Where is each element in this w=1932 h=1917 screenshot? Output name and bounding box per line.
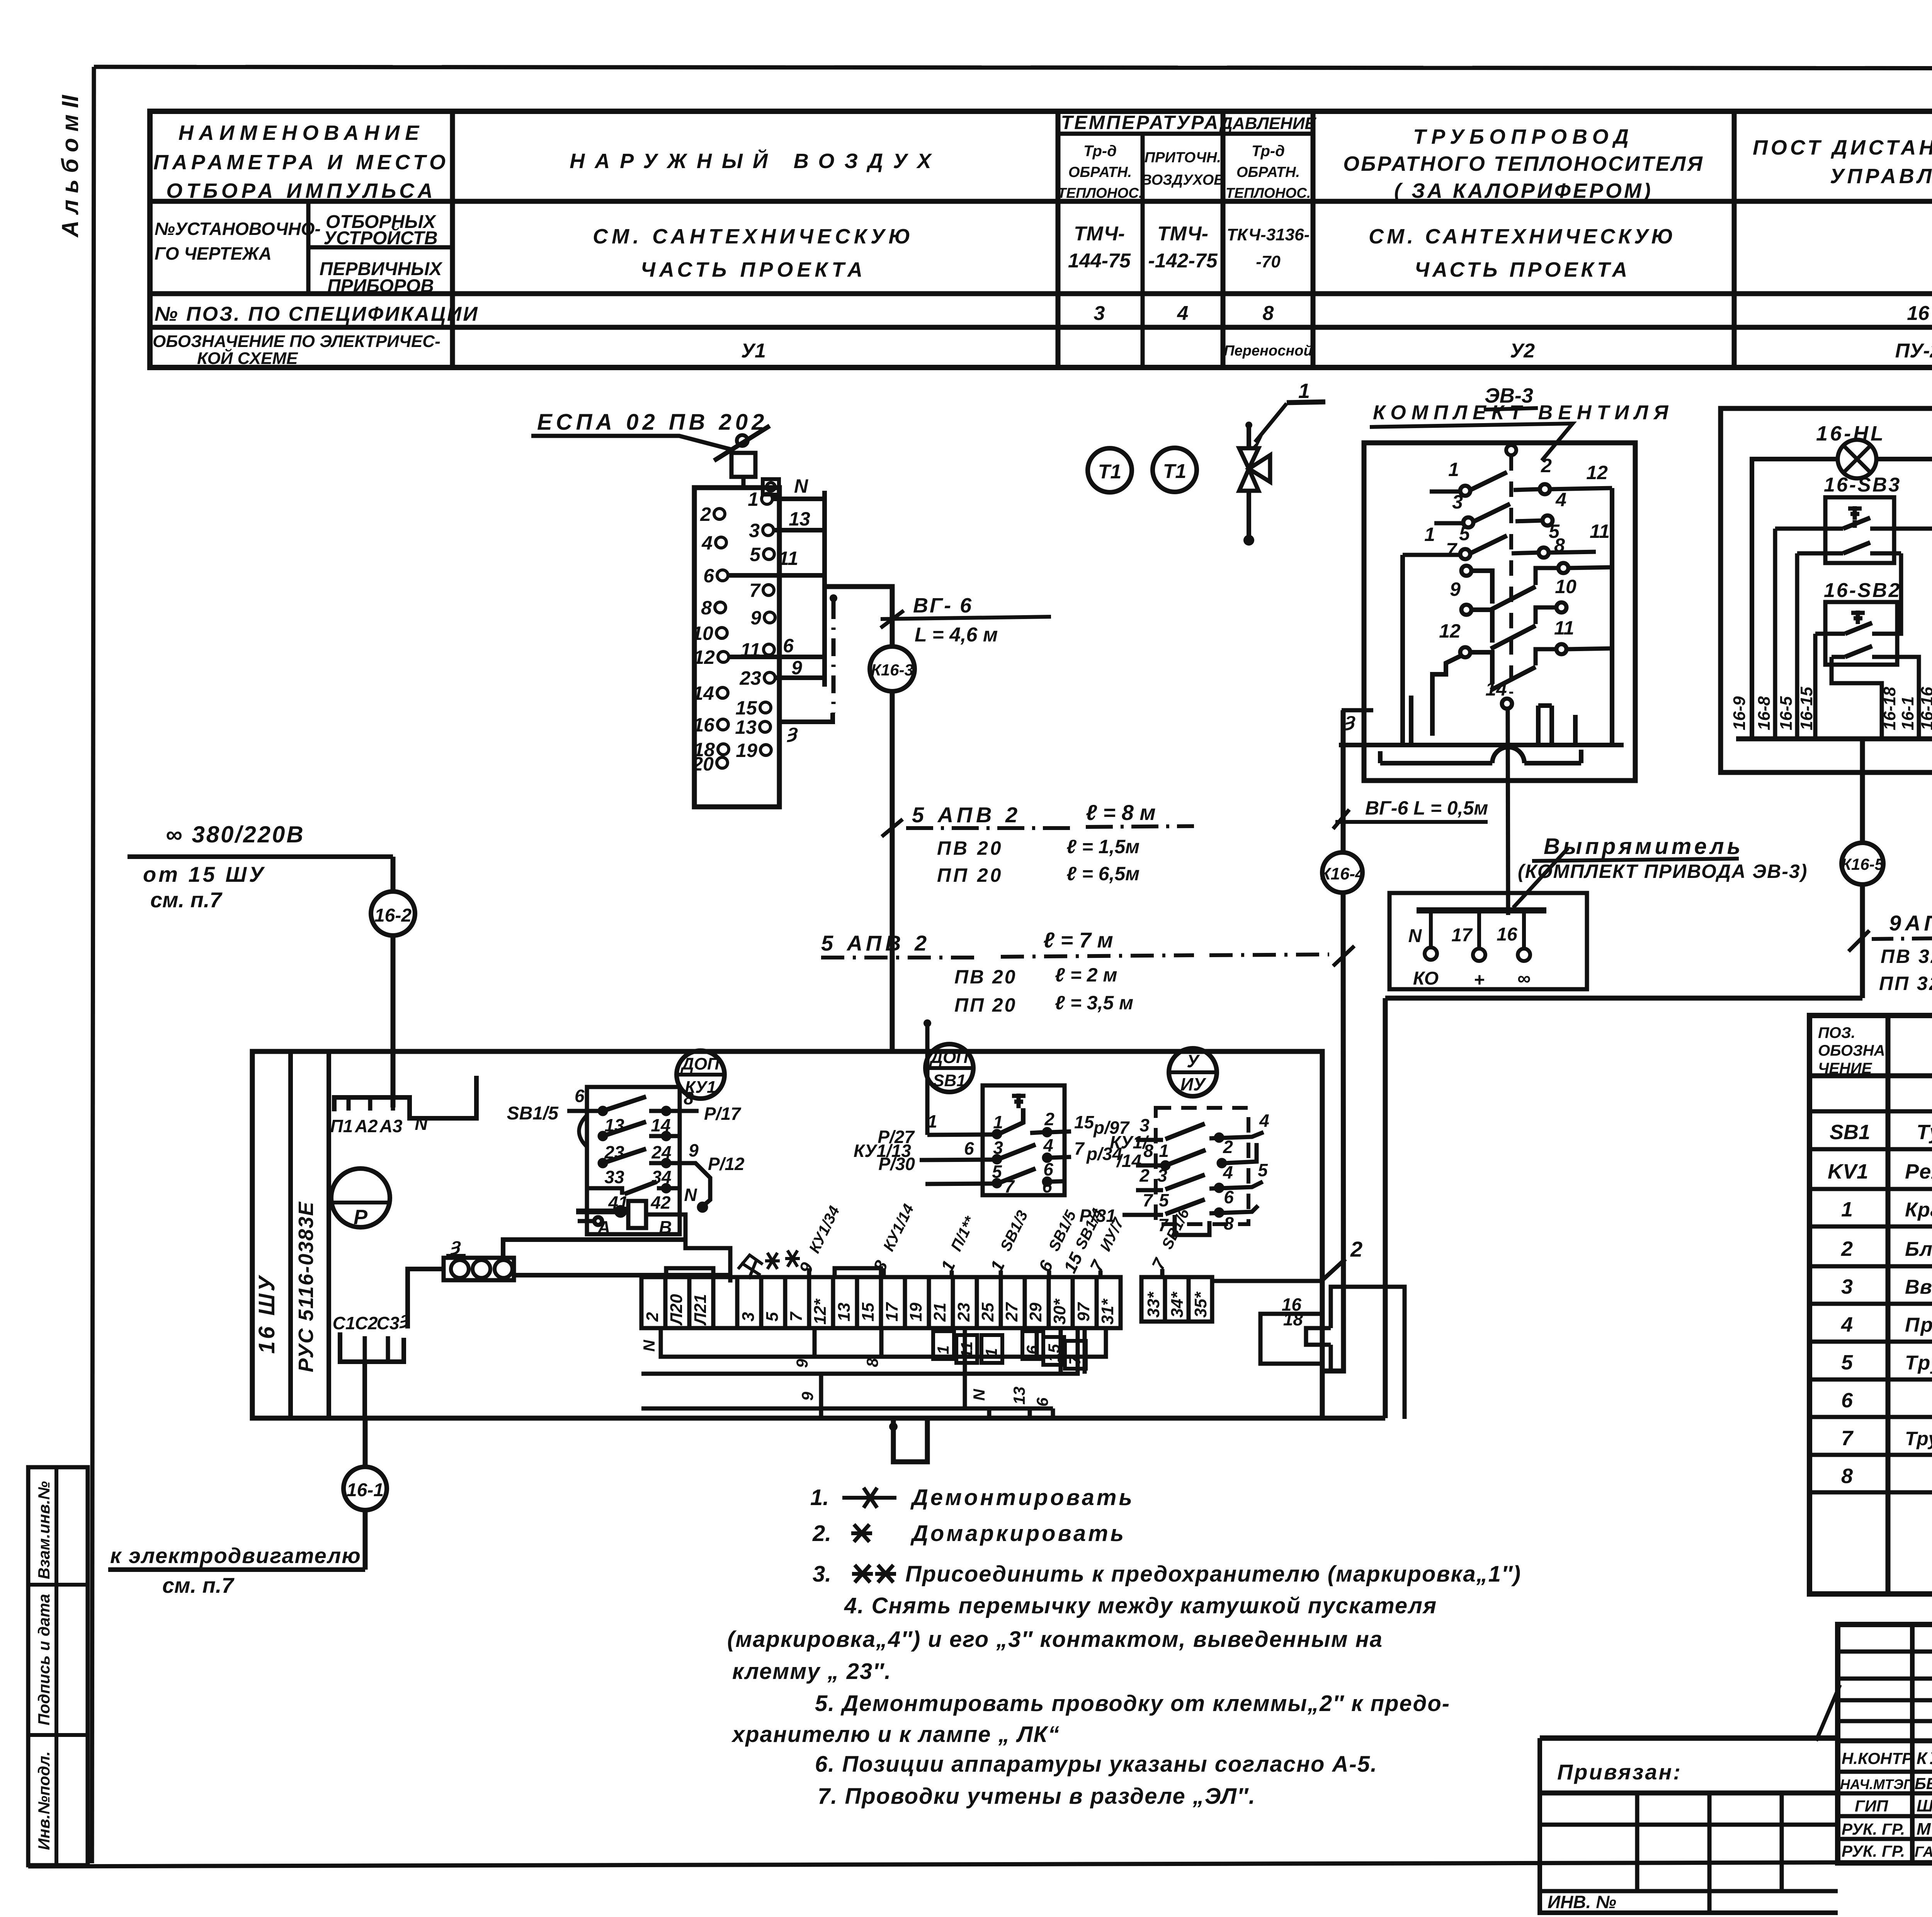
svg-text:2: 2 — [1841, 1237, 1853, 1260]
svg-text:П1: П1 — [330, 1116, 353, 1136]
svg-text:5. Демонтировать проводку от: 5. Демонтировать проводку от клеммы„2″ к… — [815, 1691, 1450, 1716]
svg-text:5 АПВ 2: 5 АПВ 2 — [821, 931, 930, 955]
svg-text:ПВ 20: ПВ 20 — [954, 966, 1017, 988]
svg-text:6. Позиции аппаратуры указан: 6. Позиции аппаратуры указаны согласно А… — [815, 1752, 1378, 1777]
svg-text:5: 5 — [1258, 1160, 1268, 1180]
privyazan box — [1540, 1738, 1838, 1913]
svg-text:2: 2 — [1541, 455, 1552, 476]
svg-text:НАЧ.МТЭП: НАЧ.МТЭП — [1840, 1776, 1914, 1792]
row 1-2 — [1460, 486, 1470, 496]
left terminals — [714, 509, 729, 768]
notes — [727, 1485, 1521, 1809]
right terminals — [760, 493, 775, 755]
KU1 relay block — [507, 1051, 745, 1283]
svg-text:N: N — [794, 475, 808, 497]
svg-text:Труба ТУ6-19-051-249-79 ПВХ-В-: Труба ТУ6-19-051-249-79 ПВХ-В-Р ЭП 20У — [1905, 1428, 1932, 1449]
svg-text:SВ1: SВ1 — [933, 1071, 966, 1090]
svg-text:13: 13 — [835, 1303, 854, 1322]
svg-text:УПРАВЛЕНИЯ: УПРАВЛЕНИЯ — [1830, 165, 1932, 188]
svg-text:С3: С3 — [377, 1313, 400, 1333]
5 APV 2 labels — [882, 819, 903, 837]
lever / switch arm — [714, 426, 770, 461]
svg-text:КОЙ СХЕМЕ: КОЙ СХЕМЕ — [197, 348, 298, 368]
svg-text:8: 8 — [1143, 1141, 1153, 1161]
svg-text:6: 6 — [1034, 1257, 1057, 1275]
svg-text:+: + — [1474, 970, 1485, 990]
svg-text:ГИП: ГИП — [1855, 1797, 1888, 1815]
svg-text:SВ1/3: SВ1/3 — [997, 1208, 1031, 1254]
dashed actuator line — [1506, 445, 1516, 455]
fuse square — [731, 453, 755, 477]
svg-text:16-ЅВ2: 16-ЅВ2 — [1824, 579, 1901, 602]
svg-text:ПРИТОЧН.: ПРИТОЧН. — [1145, 150, 1221, 166]
svg-text:16-16: 16-16 — [1918, 687, 1932, 730]
left margin strip — [28, 95, 88, 1865]
svg-text:К16-5: К16-5 — [1841, 855, 1884, 873]
svg-text:ТРУБОПРОВОД: ТРУБОПРОВОД — [1413, 125, 1634, 148]
EV-3 valve drive box — [821, 384, 1673, 1371]
svg-text:НАИМЕНОВАНИЕ: НАИМЕНОВАНИЕ — [179, 121, 425, 145]
svg-text:8: 8 — [1263, 302, 1274, 325]
svg-text:Реле РПЛ-1310 4: Реле РПЛ-1310 4 — [1905, 1160, 1932, 1183]
svg-text:SB1: SB1 — [1830, 1121, 1870, 1144]
svg-text:ℓ = 8 м: ℓ = 8 м — [1086, 800, 1156, 825]
dash-dot demount wire — [832, 601, 836, 713]
C1 C2 C3 comb — [333, 1308, 410, 1418]
svg-text:9: 9 — [795, 1259, 817, 1277]
svg-text:П/1**: П/1** — [948, 1213, 979, 1254]
svg-text:1: 1 — [934, 1345, 952, 1354]
svg-text:16: 16 — [1907, 302, 1930, 325]
svg-text:11: 11 — [1590, 520, 1610, 542]
svg-text:16 ШУ: 16 ШУ — [254, 1274, 279, 1354]
svg-text:КУНИНА: КУНИНА — [1917, 1749, 1932, 1768]
T1 instrument circles — [1088, 448, 1197, 492]
svg-text:7: 7 — [1074, 1138, 1085, 1158]
svg-text:Инв.№подл.: Инв.№подл. — [35, 1751, 53, 1850]
svg-text:ШЕЛЕВИЛЯ: ШЕЛЕВИЛЯ — [1917, 1796, 1932, 1815]
block body — [694, 488, 779, 807]
svg-text:ОТБОРА ИМПУЛЬСА: ОТБОРА ИМПУЛЬСА — [166, 179, 437, 202]
SB1 tumbler block — [854, 1019, 1149, 1196]
svg-text:6: 6 — [1023, 1345, 1041, 1354]
svg-text:Т1: Т1 — [1098, 461, 1122, 483]
svg-text:5: 5 — [750, 544, 761, 565]
svg-text:ОБРАТНОГО ТЕПЛОНОСИТЕЛЯ: ОБРАТНОГО ТЕПЛОНОСИТЕЛЯ — [1343, 152, 1704, 175]
VG-6 L=0,5 marking — [1333, 810, 1349, 829]
svg-text:ℓ = 6,5м: ℓ = 6,5м — [1066, 863, 1139, 885]
svg-text:3: 3 — [1094, 302, 1105, 325]
bus to K16-3 — [825, 587, 892, 646]
svg-text:8: 8 — [684, 1088, 694, 1108]
left feeder texts — [108, 822, 393, 1597]
svg-text:12: 12 — [693, 646, 715, 668]
16/18 connector — [1260, 1287, 1405, 1419]
svg-text:ℓ = 7 м: ℓ = 7 м — [1043, 928, 1113, 952]
svg-text:Тр-д: Тр-д — [1252, 143, 1285, 160]
svg-text:16-1: 16-1 — [1898, 696, 1917, 730]
svg-text:УСТРОЙСТВ: УСТРОЙСТВ — [323, 227, 437, 248]
svg-text:БЕГАНСКАЯ: БЕГАНСКАЯ — [1915, 1774, 1932, 1793]
svg-text:4. Снять перемычку между ка: 4. Снять перемычку между катушкой пускат… — [844, 1593, 1437, 1618]
svg-text:12: 12 — [1439, 620, 1461, 642]
svg-text:1: 1 — [1448, 459, 1459, 480]
svg-text:СМ. САНТЕХНИЧЕСКУЮ: СМ. САНТЕХНИЧЕСКУЮ — [1369, 225, 1676, 248]
svg-text:18: 18 — [1283, 1309, 1303, 1329]
svg-text:6: 6 — [1841, 1389, 1853, 1412]
svg-text:6: 6 — [964, 1138, 974, 1158]
svg-text:Тр-д: Тр-д — [1083, 143, 1117, 160]
svg-text:144-75: 144-75 — [1068, 250, 1131, 272]
svg-text:А л ь б о м II: А л ь б о м II — [57, 95, 83, 238]
svg-text:17: 17 — [883, 1302, 901, 1322]
svg-text:14: 14 — [651, 1115, 670, 1135]
svg-text:ТМЧ-: ТМЧ- — [1074, 223, 1125, 245]
svg-text:6: 6 — [575, 1086, 585, 1106]
svg-text:33: 33 — [604, 1167, 624, 1187]
svg-text:16: 16 — [1497, 924, 1517, 945]
16-2 riser — [371, 857, 415, 1107]
contact numbers — [1424, 455, 1610, 700]
svg-text:ПОЗ.: ПОЗ. — [1818, 1024, 1855, 1041]
svg-text:Переносной: Переносной — [1224, 343, 1312, 359]
svg-text:7: 7 — [1841, 1427, 1854, 1450]
svg-text:5: 5 — [763, 1312, 782, 1322]
svg-text:12*: 12* — [811, 1298, 830, 1325]
row 9-10 — [1461, 605, 1471, 615]
svg-text:15: 15 — [735, 697, 757, 719]
svg-text:31*: 31* — [1098, 1298, 1117, 1325]
svg-text:7: 7 — [749, 580, 761, 601]
svg-text:А: А — [597, 1217, 610, 1237]
svg-text:2: 2 — [1350, 1237, 1362, 1261]
svg-text:ПАРАМЕТРА И МЕСТО: ПАРАМЕТРА И МЕСТО — [153, 151, 449, 174]
svg-text:ȝ: ȝ — [450, 1235, 461, 1255]
svg-text:Р/17: Р/17 — [704, 1104, 742, 1124]
svg-text:23: 23 — [604, 1142, 624, 1162]
svg-text:3: 3 — [1841, 1275, 1853, 1298]
svg-text:ПУ-2: ПУ-2 — [1895, 340, 1932, 362]
33 34 35 cells — [1141, 1277, 1212, 1322]
svg-text:2: 2 — [1139, 1165, 1150, 1186]
svg-text:9: 9 — [793, 1359, 811, 1368]
svg-text:ДОП: ДОП — [680, 1055, 720, 1073]
svg-text:ГАНОПОЛЬСКАЯ: ГАНОПОЛЬСКАЯ — [1915, 1844, 1932, 1860]
svg-text:Т1: Т1 — [1163, 460, 1187, 483]
svg-text:12: 12 — [1586, 462, 1608, 483]
svg-text:4: 4 — [1043, 1135, 1053, 1155]
svg-text:5: 5 — [1459, 523, 1470, 544]
svg-text:16-9: 16-9 — [1730, 696, 1749, 730]
svg-text:13: 13 — [735, 716, 757, 738]
svg-text:У2: У2 — [1510, 340, 1535, 362]
svg-text:ПОСТ ДИСТАНЦИОННОГО: ПОСТ ДИСТАНЦИОННОГО — [1753, 136, 1932, 159]
svg-text:2: 2 — [1044, 1109, 1054, 1129]
svg-text:2: 2 — [643, 1312, 662, 1322]
svg-text:5: 5 — [992, 1162, 1002, 1182]
svg-text:ТЕПЛОНОС.: ТЕПЛОНОС. — [1226, 185, 1311, 201]
svg-text:С1: С1 — [333, 1313, 355, 1333]
svg-text:Тумблер ТВ1-2: Тумблер ТВ1-2 — [1917, 1121, 1932, 1144]
svg-text:11: 11 — [778, 548, 798, 569]
svg-text:-142-75: -142-75 — [1148, 250, 1218, 272]
svg-text:34*: 34* — [1168, 1291, 1187, 1318]
svg-text:25: 25 — [978, 1303, 997, 1322]
svg-text:НАРУЖНЫЙ ВОЗДУХ: НАРУЖНЫЙ ВОЗДУХ — [570, 149, 941, 173]
svg-text:KV1: KV1 — [1828, 1160, 1868, 1183]
svg-text:Взам.инв.№: Взам.инв.№ — [35, 1481, 53, 1579]
P1 A2 A3 N comb — [330, 1076, 476, 1136]
14 bottom contact — [1502, 699, 1512, 709]
svg-text:4: 4 — [701, 532, 713, 554]
svg-text:SВ1/5: SВ1/5 — [1046, 1208, 1080, 1254]
svg-text:42: 42 — [650, 1192, 671, 1213]
svg-text:19: 19 — [736, 740, 757, 761]
svg-text:А3: А3 — [379, 1116, 403, 1136]
svg-text:4: 4 — [1555, 489, 1566, 510]
svg-text:К16-3: К16-3 — [871, 661, 913, 679]
svg-text:ЧЕНИЕ: ЧЕНИЕ — [1818, 1060, 1872, 1077]
svg-text:35*: 35* — [1191, 1291, 1210, 1318]
svg-text:13: 13 — [789, 508, 810, 530]
svg-text:ПП 20: ПП 20 — [954, 994, 1017, 1016]
svg-text:19: 19 — [906, 1303, 925, 1322]
svg-text:15: 15 — [1074, 1112, 1095, 1132]
svg-text:ТЕПЛОНОС.: ТЕПЛОНОС. — [1058, 185, 1143, 201]
svg-text:ℓ = 2 м: ℓ = 2 м — [1055, 964, 1117, 986]
svg-text:ИНВ. №: ИНВ. № — [1548, 1892, 1616, 1912]
svg-text:ȝ: ȝ — [787, 721, 798, 742]
svg-text:РУК. ГР.: РУК. ГР. — [1842, 1820, 1905, 1838]
svg-text:1: 1 — [1298, 379, 1310, 403]
svg-text:3: 3 — [749, 520, 760, 541]
svg-text:4: 4 — [1259, 1111, 1269, 1131]
right components table — [1810, 1015, 1932, 1594]
svg-text:Привязан:: Привязан: — [1557, 1760, 1682, 1784]
svg-text:5: 5 — [1159, 1190, 1169, 1210]
svg-text:от 15 ШУ: от 15 ШУ — [143, 862, 266, 886]
svg-text:К16-4: К16-4 — [1320, 864, 1364, 883]
svg-text:41: 41 — [608, 1192, 628, 1213]
svg-text:15: 15 — [859, 1303, 878, 1322]
svg-text:1: 1 — [927, 1111, 937, 1131]
svg-text:Л21: Л21 — [691, 1294, 710, 1326]
row 12-11 — [1460, 647, 1470, 657]
svg-text:7: 7 — [787, 1311, 806, 1322]
svg-text:5 АПВ 2: 5 АПВ 2 — [912, 803, 1021, 827]
svg-text:34: 34 — [651, 1167, 671, 1187]
svg-text:В: В — [659, 1217, 672, 1237]
rectifier — [1389, 834, 1808, 990]
svg-text:24: 24 — [651, 1142, 671, 1162]
svg-text:2: 2 — [1223, 1137, 1233, 1157]
svg-text:ДОП: ДОП — [929, 1048, 969, 1067]
svg-text:1.: 1. — [810, 1485, 829, 1510]
svg-text:23: 23 — [954, 1303, 973, 1322]
svg-text:15: 15 — [1060, 1249, 1087, 1276]
svg-text:С2: С2 — [355, 1313, 378, 1333]
svg-text:Л20: Л20 — [667, 1294, 686, 1326]
wires from lamp — [1752, 459, 1932, 739]
K16-3 circle — [870, 646, 915, 691]
16-1 riser — [344, 1418, 387, 1570]
svg-text:КО: КО — [1413, 968, 1439, 989]
svg-text:7: 7 — [1446, 539, 1458, 561]
svg-text:Кран трехходовой 14м1-16: Кран трехходовой 14м1-16 — [1905, 1199, 1932, 1221]
svg-text:33*: 33* — [1144, 1291, 1163, 1318]
svg-text:КУ1/14: КУ1/14 — [880, 1201, 917, 1254]
svg-text:СМ. САНТЕХНИЧЕСКУЮ: СМ. САНТЕХНИЧЕСКУЮ — [593, 225, 914, 248]
svg-text:ВГ- 6: ВГ- 6 — [913, 594, 973, 617]
svg-text:У: У — [1187, 1051, 1200, 1071]
IU plug block (dashed) — [1079, 1048, 1269, 1235]
svg-text:8: 8 — [863, 1358, 881, 1367]
K16-5 riser — [1841, 843, 1932, 998]
svg-text:16-15: 16-15 — [1797, 687, 1816, 730]
svg-text:11: 11 — [1554, 617, 1574, 639]
demount marks over cells 3-7 — [738, 1250, 800, 1279]
svg-text:5: 5 — [1841, 1351, 1853, 1374]
svg-text:13: 13 — [1010, 1386, 1028, 1405]
svg-text:Провод АПВ 2 —380/660: Провод АПВ 2 —380/660 — [1905, 1314, 1932, 1336]
svg-text:А2: А2 — [355, 1116, 378, 1136]
svg-text:9: 9 — [1450, 578, 1461, 600]
svg-text:7: 7 — [1143, 1190, 1153, 1210]
svg-text:9: 9 — [750, 607, 761, 629]
svg-text:2.: 2. — [812, 1521, 831, 1546]
svg-text:РУС 5116-0383Е: РУС 5116-0383Е — [294, 1201, 318, 1373]
svg-text:30*: 30* — [1050, 1298, 1069, 1325]
svg-text:Р/30: Р/30 — [878, 1154, 915, 1174]
svg-text:(маркировка„4″) и его „3″ ко: (маркировка„4″) и его „3″ контактом, выв… — [727, 1627, 1383, 1652]
svg-text:клемму „ 23″.: клемму „ 23″. — [732, 1659, 891, 1684]
svg-text:7: 7 — [1004, 1176, 1015, 1196]
16-HL local control post box — [1721, 408, 1932, 843]
note symbols — [842, 1488, 896, 1582]
svg-text:N: N — [1408, 926, 1422, 946]
svg-text:У1: У1 — [741, 340, 766, 362]
svg-text:см. п.7: см. п.7 — [150, 888, 223, 912]
svg-text:3.: 3. — [813, 1561, 831, 1587]
terminal strip — [640, 1201, 1405, 1419]
svg-text:ЧАСТЬ ПРОЕКТА: ЧАСТЬ ПРОЕКТА — [1415, 258, 1630, 281]
rotated wire tags above strip — [795, 1201, 1128, 1277]
svg-text:27: 27 — [1002, 1302, 1021, 1322]
svg-text:6: 6 — [1033, 1397, 1051, 1407]
bottom bus and tags — [1736, 737, 1932, 742]
svg-text:9: 9 — [689, 1140, 699, 1160]
svg-text:ОБОЗНА-: ОБОЗНА- — [1818, 1042, 1890, 1059]
short leads from blocks to strip — [809, 1268, 1100, 1277]
svg-text:4: 4 — [1841, 1313, 1853, 1336]
tag boxes below strip — [933, 1331, 1086, 1369]
svg-text:13: 13 — [604, 1115, 624, 1135]
svg-text:ПП 20: ПП 20 — [937, 864, 1003, 886]
svg-text:1: 1 — [1159, 1141, 1169, 1161]
svg-text:Ввод гибкий ВГ-6 ТКЧ-395-71: Ввод гибкий ВГ-6 ТКЧ-395-71 — [1905, 1276, 1932, 1298]
svg-text:14: 14 — [1485, 678, 1507, 700]
svg-text:3: 3 — [1452, 491, 1463, 513]
svg-text:МОРОЗ: МОРОЗ — [1917, 1820, 1932, 1839]
svg-text:№УСТАНОВОЧНО-: №УСТАНОВОЧНО- — [155, 219, 321, 239]
svg-text:3: 3 — [993, 1138, 1003, 1158]
contact rows — [1403, 472, 1612, 915]
svg-text:9: 9 — [798, 1391, 816, 1401]
row 3-4 — [1463, 517, 1473, 527]
svg-text:-70: -70 — [1256, 252, 1281, 271]
link wire rectifier area to K16-5 riser — [1385, 998, 1862, 1418]
svg-text:7. Проводки учтены в раздел: 7. Проводки учтены в разделе „ЭЛ″. — [818, 1784, 1256, 1809]
svg-text:Труба ГОСТ 18599-83 ПНП 2: Труба ГОСТ 18599-83 ПНП 20С — [1905, 1352, 1932, 1374]
wires below strip — [641, 1328, 1106, 1418]
svg-text:1: 1 — [748, 488, 759, 510]
svg-text:КУ1/34: КУ1/34 — [806, 1203, 843, 1256]
svg-text:N: N — [640, 1339, 658, 1352]
svg-text:∞ 380/220В: ∞ 380/220В — [166, 822, 305, 847]
row 7-8 step — [1461, 566, 1471, 576]
svg-text:N: N — [415, 1114, 428, 1134]
svg-text:ВГ-6 L = 0,5м: ВГ-6 L = 0,5м — [1365, 797, 1488, 819]
svg-text:Присоединить к предохранителю: Присоединить к предохранителю (маркировк… — [905, 1561, 1521, 1587]
svg-text:97: 97 — [1074, 1302, 1093, 1322]
svg-text:ДАВЛЕНИЕ: ДАВЛЕНИЕ — [1219, 114, 1316, 133]
svg-text:( ЗА КАЛОРИФЕРОМ): ( ЗА КАЛОРИФЕРОМ) — [1394, 179, 1653, 202]
svg-text:4: 4 — [1177, 302, 1189, 325]
svg-text:см. п.7: см. п.7 — [162, 1573, 235, 1597]
svg-text:16-SВ3: 16-SВ3 — [1824, 474, 1901, 496]
svg-text:(КОМПЛЕКТ ПРИВОДА ЭВ-3): (КОМПЛЕКТ ПРИВОДА ЭВ-3) — [1518, 861, 1808, 882]
svg-text:6: 6 — [1224, 1187, 1234, 1207]
svg-text:7: 7 — [1086, 1256, 1109, 1275]
svg-text:21: 21 — [930, 1303, 949, 1322]
svg-text:8: 8 — [701, 597, 712, 619]
svg-text:КОМПЛЕКТ ВЕНТИЛЯ: КОМПЛЕКТ ВЕНТИЛЯ — [1373, 401, 1673, 424]
svg-text:/14: /14 — [1116, 1151, 1141, 1171]
svg-text:ТКЧ-3136-: ТКЧ-3136- — [1227, 225, 1310, 244]
svg-text:Н.КОНТР: Н.КОНТР — [1842, 1749, 1913, 1767]
svg-text:Блок зажимов БЗ-10 ТУ 36.1761-: Блок зажимов БЗ-10 ТУ 36.1761-76 — [1905, 1238, 1932, 1260]
wire tags — [778, 475, 810, 742]
wires to N-bus — [728, 491, 833, 722]
svg-text:Выпрямитель: Выпрямитель — [1544, 834, 1743, 859]
svg-text:17: 17 — [1451, 925, 1473, 946]
three-way valve item 1 — [1239, 379, 1325, 546]
P meter — [331, 1169, 390, 1229]
svg-text:6: 6 — [783, 635, 794, 657]
top parameters table — [150, 111, 1932, 368]
svg-text:8: 8 — [1224, 1213, 1234, 1233]
RUS 5116 panel — [252, 1019, 1405, 1570]
svg-text:10: 10 — [1555, 576, 1577, 597]
svg-text:15: 15 — [1045, 1344, 1063, 1362]
svg-text:16-1: 16-1 — [347, 1480, 384, 1500]
svg-text:Домаркировать: Домаркировать — [910, 1521, 1126, 1546]
svg-text:7: 7 — [1148, 1254, 1170, 1273]
svg-text:3: 3 — [1157, 1165, 1167, 1186]
svg-text:N: N — [970, 1388, 988, 1401]
svg-text:16-18: 16-18 — [1880, 687, 1899, 730]
svg-text:9: 9 — [791, 657, 802, 679]
svg-text:ЕСПА 02 ПВ 202: ЕСПА 02 ПВ 202 — [537, 410, 768, 435]
svg-text:14: 14 — [692, 682, 714, 704]
svg-text:6: 6 — [703, 565, 714, 587]
svg-text:ОБОЗНАЧЕНИЕ ПО ЭЛЕКТРИЧЕС-: ОБОЗНАЧЕНИЕ ПО ЭЛЕКТРИЧЕС- — [153, 332, 440, 351]
svg-text:4: 4 — [1223, 1162, 1233, 1182]
svg-text:1: 1 — [993, 1112, 1003, 1132]
svg-text:Подпись и дата: Подпись и дата — [35, 1594, 53, 1725]
svg-text:8: 8 — [1554, 534, 1565, 556]
svg-text:3: 3 — [1139, 1115, 1150, 1135]
